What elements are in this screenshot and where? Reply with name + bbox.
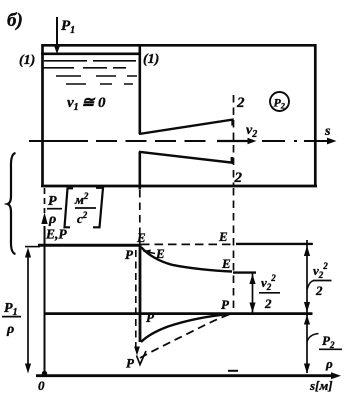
svg-text:P: P — [125, 247, 134, 262]
axis s centerline — [29, 140, 88, 142]
E level line right solid — [236, 243, 313, 245]
svg-text:2: 2 — [264, 296, 272, 311]
E curve label arrow — [145, 252, 155, 254]
dashed ideal drop at section 1 — [135, 250, 137, 348]
svg-text:s[м]: s[м] — [309, 378, 333, 393]
E2 level short line — [233, 271, 256, 273]
svg-text:ρ: ρ — [48, 212, 56, 227]
diffuser top line — [139, 120, 233, 134]
E curve — [141, 247, 232, 272]
outer v2^2/2 label — [307, 281, 314, 291]
v2 arrow — [217, 140, 250, 142]
P drop vertical at section 1 — [139, 244, 142, 342]
svg-text:(1): (1) — [19, 53, 35, 68]
diffuser bottom line — [139, 152, 232, 163]
svg-text:v1≅ 0: v1≅ 0 — [67, 95, 106, 113]
P2 circled — [270, 92, 289, 111]
svg-text:P: P — [146, 310, 155, 325]
inner v2^2/2 dimension — [252, 274, 254, 313]
svg-text:E,P: E,P — [45, 227, 67, 242]
svg-text:P: P — [221, 297, 230, 312]
E level line dashed — [141, 243, 233, 245]
wall (1) between tank and chamber — [139, 45, 142, 134]
svg-text:s: s — [324, 124, 331, 139]
y axis — [44, 226, 46, 374]
svg-text:(1): (1) — [143, 52, 159, 67]
section 2 dashed line (upper figure) — [233, 95, 235, 185]
svg-text:2: 2 — [234, 170, 243, 186]
svg-text:E: E — [155, 246, 165, 261]
E level line solid — [38, 244, 141, 247]
P2 level line — [44, 312, 313, 315]
P2/rho right label — [307, 334, 319, 343]
origin dot — [42, 371, 47, 376]
svg-text:ρ: ρ — [325, 356, 333, 371]
P dashed curve — [140, 313, 233, 358]
section 1 dashed continuation — [139, 190, 141, 244]
svg-text:б): б) — [7, 10, 23, 31]
svg-text:P: P — [126, 356, 135, 371]
brace between figures — [8, 153, 16, 254]
svg-text:ρ: ρ — [6, 322, 14, 337]
svg-text:E: E — [221, 256, 231, 271]
svg-text:0: 0 — [38, 378, 45, 393]
right dimension line — [301, 243, 313, 245]
left dimension P1/rho — [25, 246, 40, 248]
svg-text:2: 2 — [315, 283, 323, 298]
x axis — [36, 374, 332, 377]
svg-text:P: P — [48, 194, 57, 209]
tank outer rectangle — [41, 45, 317, 187]
svg-text:2: 2 — [236, 95, 245, 111]
section 2 dashed continuation — [233, 188, 235, 312]
svg-text:E: E — [136, 230, 146, 245]
P1 arrow — [56, 17, 58, 46]
P solid curve — [141, 314, 231, 342]
svg-text:E: E — [218, 229, 228, 244]
water surface — [41, 52, 139, 55]
